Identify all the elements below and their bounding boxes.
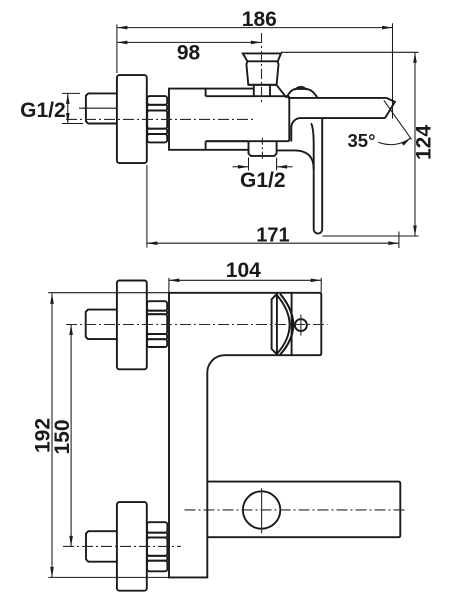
hex adapter band 2 [147, 105, 167, 111]
35 degree arc [378, 138, 411, 145]
G1/2 left ext top [62, 92, 80, 94]
upper port centerline [66, 324, 328, 326]
G1/2 port dim line right segment [277, 166, 293, 168]
cartridge collar line [272, 293, 278, 354]
ext line 192 top [48, 292, 169, 294]
upper hex band 1 [147, 301, 167, 311]
svg-text:G1/2: G1/2 [240, 169, 286, 192]
spout tip chamfer [385, 98, 395, 118]
upper hex band 4 [147, 334, 167, 339]
svg-text:186: 186 [242, 8, 277, 31]
bottom port centerline [261, 138, 263, 161]
lower hex band 3 [147, 538, 167, 556]
svg-text:35°: 35° [348, 130, 376, 151]
lever blade inner arc [277, 296, 289, 354]
lower hex band 5 [147, 561, 167, 572]
diverter circle vertical centerline [261, 488, 263, 533]
wall flange (escutcheon, side view) [117, 75, 147, 163]
body tube [169, 89, 206, 150]
spout centerline [185, 509, 407, 511]
dim line 186 [117, 27, 393, 29]
lower hex band 2 [147, 533, 167, 538]
lower hex band 4 [147, 556, 167, 561]
G1/2 leader line [79, 107, 116, 109]
lever blade outer arc [280, 294, 293, 355]
dim line 124 [414, 52, 416, 236]
L-shaped body outline [169, 293, 321, 578]
ext line 171 left [146, 165, 148, 248]
ext line spout end vertical [392, 23, 394, 118]
G1/2 port dim line left segment [233, 166, 249, 168]
spout bottom edge with body fillet [291, 118, 385, 141]
svg-text:G1/2: G1/2 [20, 99, 66, 122]
screw hole vertical centerline [300, 315, 302, 336]
dim line 150 [70, 325, 72, 547]
diverter knob (front view) [243, 491, 280, 528]
block bottom edge continuation [206, 140, 249, 142]
spout (front view) [207, 482, 400, 538]
ext line 124 top [281, 51, 419, 53]
ext line wall face (186/98) [116, 25, 118, 74]
svg-text:104: 104 [226, 259, 261, 282]
35 degree reference line [384, 100, 412, 139]
dim line 98 [117, 41, 262, 43]
ext line 104 right [320, 278, 322, 292]
body lower contour [277, 150, 314, 169]
lower hex band 1 [147, 522, 167, 533]
dome cap [295, 87, 307, 90]
G1/2 left dim line [67, 93, 69, 123]
upper hex band 2 [147, 311, 167, 315]
svg-text:124: 124 [413, 125, 436, 160]
hex adapter band 4 [147, 129, 167, 134]
hex adapter (side view) band 1 [147, 96, 167, 105]
lower port centerline [63, 545, 181, 547]
lever pivot dome [286, 89, 317, 98]
ext line 104 left [168, 278, 170, 292]
handle divider line [291, 293, 293, 355]
svg-text:150: 150 [51, 419, 74, 454]
G1/2 port ext right [276, 158, 278, 171]
dim line 192 [51, 293, 53, 577]
knob stem [254, 85, 270, 96]
G1/2 left ext bottom [62, 123, 83, 125]
dim line 104 [169, 279, 321, 281]
wall nipple G1/2 (side view) [86, 93, 117, 123]
ext line 171 right [398, 232, 400, 249]
lower wall nipple (front) [86, 531, 117, 562]
upper wall nipple (front) [86, 310, 117, 340]
bottom port nipple [249, 141, 277, 156]
G1/2 port ext left [248, 158, 250, 171]
hex adapter band 5 [147, 134, 167, 142]
knob body bottom edge [248, 84, 276, 86]
upper hex band 3 [147, 314, 167, 334]
handle screw hole [295, 319, 307, 331]
upper ridge line [206, 88, 254, 90]
diverter knob body [246, 61, 278, 85]
ext line 192 bottom [48, 576, 169, 578]
lever (side view) [311, 118, 322, 234]
lever blade front vertical [276, 293, 278, 354]
cartridge block [206, 96, 290, 141]
upper flange (front) [117, 281, 147, 370]
dim line 171 [147, 242, 399, 244]
ext line 124 bottom [323, 235, 419, 237]
body axis centerline [66, 118, 256, 120]
lower flange (front) [117, 502, 147, 591]
diverter knob cap [243, 53, 281, 61]
knob vertical centerline [261, 33, 263, 103]
tube bottom edge continuation [206, 149, 250, 151]
slope line right of stem [277, 85, 286, 97]
spout top edge [288, 97, 387, 99]
svg-text:98: 98 [177, 41, 201, 64]
svg-text:171: 171 [256, 224, 289, 246]
hex adapter band 3 (center) [147, 110, 167, 128]
upper hex band 5 [147, 339, 167, 347]
